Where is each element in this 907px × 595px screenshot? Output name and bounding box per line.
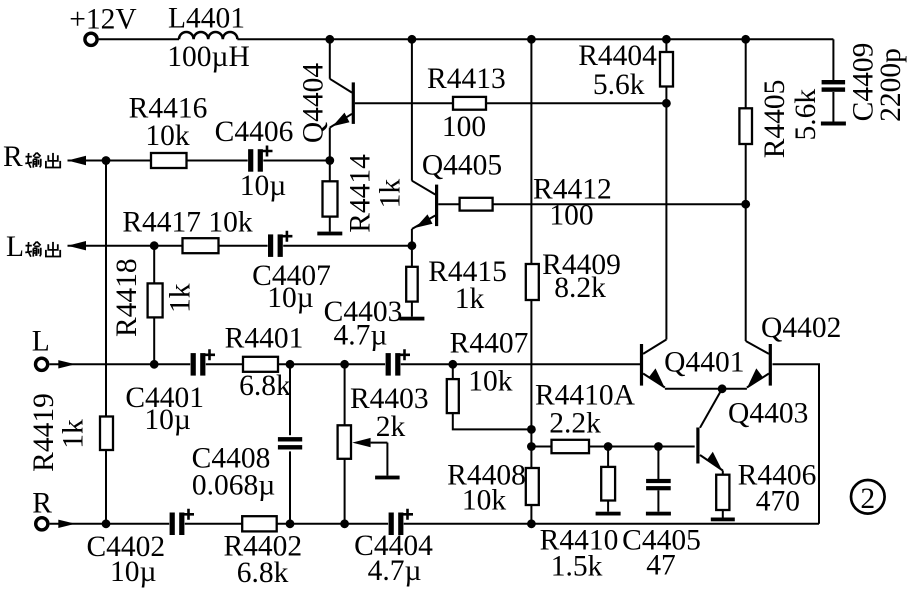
svg-text:R4413: R4413 [427,63,506,95]
svg-text:Q4401: Q4401 [664,346,744,378]
resistor R4415 [406,267,418,302]
svg-text:5.6k: 5.6k [593,69,645,101]
svg-text:100: 100 [549,200,593,232]
ground under R4406 [722,510,724,518]
node on R-out [102,156,111,165]
svg-text:2k: 2k [376,411,406,443]
transistor Q4403 [696,389,723,475]
svg-text:1k: 1k [165,283,197,313]
resistor R4409 [526,264,539,300]
arrow R-out [68,156,87,165]
svg-text:1k: 1k [58,419,90,449]
resistor R4412 [460,198,493,211]
svg-text:Q4402: Q4402 [761,312,841,344]
node: R4410A tap [527,442,536,451]
node: R4412 to R4405 column [741,200,750,209]
svg-text:10k: 10k [145,120,190,152]
transistor Q4405 [412,39,438,245]
capacitor C4405 [646,479,671,490]
svg-text:4.7µ: 4.7µ [368,555,422,587]
wire: R input line [50,523,819,525]
svg-text:C4406: C4406 [215,116,294,148]
svg-text:10µ: 10µ [144,404,191,436]
svg-text:R4405: R4405 [759,80,791,159]
capacitor C4406 [248,146,272,172]
node: R4413/R4404 junction [662,99,671,108]
svg-text:10k: 10k [462,485,507,517]
svg-text:2200p: 2200p [875,48,907,122]
arrow L input [58,360,75,368]
node: R4407 tap [527,425,536,434]
resistor R4402 [242,516,277,531]
svg-text:1k: 1k [455,283,485,315]
ground under R4415 [411,302,413,317]
node: Q4405 emitter junction [408,241,417,250]
node on L-out [150,241,159,250]
wire: R4410 branch [607,447,609,467]
ground under R4410 [607,501,609,512]
svg-text:10µ: 10µ [267,282,314,314]
wire: R-out line [68,160,330,162]
capacitor C4401 [191,349,215,375]
resistor R4407 [447,379,459,413]
wire: Q4405 base to R4412 [438,203,746,205]
port label R-out [3,141,60,173]
svg-text:R4404: R4404 [578,40,657,72]
capacitor C4404 [389,509,413,535]
wire: R4403 branch [344,364,346,425]
node: R4410 tap [604,442,613,451]
svg-text:100µH: 100µH [167,41,250,73]
svg-text:10k: 10k [468,366,513,398]
resistor R4410A [552,440,590,453]
svg-text:100: 100 [442,111,486,143]
resistor R4418 [148,283,163,317]
wire: R4407 branch [452,364,454,379]
ground under R4414 [329,217,331,232]
resistor R4417 [183,238,219,253]
nodes on R line [102,519,536,528]
svg-text:4.7µ: 4.7µ [333,320,387,352]
svg-text:5.6k: 5.6k [790,89,822,141]
svg-text:L: L [6,231,24,263]
capacitor C4402 [170,509,194,535]
resistor R4404 [660,52,673,87]
svg-text:8.2k: 8.2k [554,272,606,304]
resistor R4410 [601,467,615,501]
capacitor C4409 [822,80,846,92]
wire: emitter node to R4414 [329,161,331,182]
svg-text:10µ: 10µ [110,556,157,588]
svg-text:Q4405: Q4405 [422,150,502,182]
terminator bar C4409 [821,122,846,126]
arrow L-out [68,241,87,250]
port label L-out [6,231,60,263]
wire: Q4401/Q4402 emitters [665,388,747,390]
svg-text:Q4403: Q4403 [728,398,808,430]
inductor L4401 [179,32,237,39]
wire: R4405 column [745,39,747,341]
terminal R input [36,518,48,530]
svg-text:R4417 10k: R4417 10k [122,207,253,239]
node: C4405 tap [654,442,663,451]
wire: C4409 lead [832,92,834,122]
svg-text:47: 47 [646,549,676,581]
resistor R4403 [338,425,351,459]
wire: C4405 branch [657,447,659,482]
svg-text:R4419: R4419 [28,393,60,472]
wire: Q4402 base to right edge [773,364,820,524]
resistor R4419 [100,417,113,451]
svg-text:R4401: R4401 [225,322,304,354]
node: emitter junction [718,384,727,393]
resistor R4405 [739,108,752,144]
resistor R4401 [243,357,278,372]
wire: L-out line [68,245,412,247]
node: rail junctions [325,35,750,44]
svg-text:L4401: L4401 [168,3,245,35]
svg-text:6.8k: 6.8k [239,370,291,402]
svg-text:2.2k: 2.2k [549,408,601,440]
transistor Q4401 [640,340,667,388]
resistor R4416 [151,153,187,168]
capacitor C4403 [386,349,410,375]
svg-text:R: R [32,488,52,520]
svg-text:R4414: R4414 [345,154,377,233]
terminal L input [36,358,48,370]
svg-text:+12V: +12V [69,3,136,35]
svg-text:0.068µ: 0.068µ [192,469,275,501]
wire: center bus column [530,39,532,524]
ground under C4405 [657,490,659,511]
resistor R4406 [716,475,729,510]
svg-text:L: L [32,326,50,358]
svg-text:1k: 1k [375,179,407,209]
resistor R4414 [323,181,338,216]
svg-text:R4407: R4407 [450,327,529,359]
svg-text:R4418: R4418 [111,258,143,337]
rotated labels [28,43,907,472]
svg-text:2: 2 [860,483,875,515]
wire: emitter node to R4415 [411,246,413,267]
capacitor C4408 [278,437,302,449]
wire: R-out feedback column [105,161,107,524]
wire: C4408 branch [289,364,291,435]
resistor R4413 [453,97,486,110]
wire: +12V rail [99,39,834,80]
resistor R4408 [526,468,539,505]
wire: Q4404 base to R4413 to R4404 [355,102,667,104]
page marker (2) [851,480,885,515]
transistor Q4402 [746,341,772,388]
node: Q4404 emitter junction [325,156,334,165]
wire: L-out feedback column [153,246,155,365]
svg-text:1.5k: 1.5k [551,550,603,582]
svg-text:Q4404: Q4404 [298,63,330,144]
wire: L input line [49,363,640,365]
arrow R input [58,520,75,528]
terminal +12V [85,33,97,45]
svg-text:R: R [3,141,23,173]
svg-text:6.8k: 6.8k [237,557,289,589]
transistor Q4404 [330,39,355,160]
capacitor C4407 [268,231,292,257]
svg-text:10µ: 10µ [240,170,287,202]
svg-text:470: 470 [756,485,800,517]
potentiometer wiper R4403 [352,438,399,480]
wire: Q4403 base line [531,446,694,448]
wire: R4404 column [665,39,667,339]
nodes on L line [150,360,457,369]
